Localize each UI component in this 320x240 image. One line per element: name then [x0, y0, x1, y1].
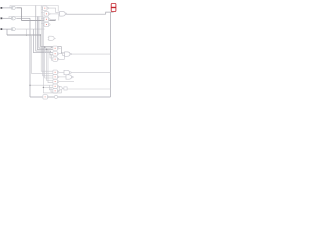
node dot (30,85.2)	[29, 85, 30, 86]
node dot (40.6,35)	[40, 34, 41, 35]
bottom box 1	[53, 70, 59, 74]
wire G3 output	[16, 28, 44, 30]
trio box 2	[53, 52, 59, 56]
output pin (red error value)	[111, 4, 116, 12]
input pin P2	[1, 17, 3, 19]
wire B out to E in2	[50, 13, 60, 15]
mini gate C	[44, 17, 50, 21]
node dot (46.6,49.4)	[46, 49, 47, 50]
nand gate H3	[66, 75, 72, 79]
wire right bus vertical x110.4	[109, 12, 111, 97]
wire long vertical x30	[29, 18, 31, 97]
node dot (43.3,87.4)	[43, 87, 44, 88]
xor gate G3	[11, 28, 15, 31]
wire E output long right	[67, 13, 106, 15]
gate F stubs	[48, 37, 56, 39]
feeder x44.7 from dot to box2 in2	[45, 47, 53, 78]
gate A input stubs	[41, 7, 42, 9]
wire row3 drop to y35	[6, 29, 8, 35]
wire circle to square	[62, 87, 64, 89]
gate B input stubs	[41, 13, 44, 15]
and gate E	[60, 12, 66, 17]
feeder x46.6 from dot to box3 in1	[47, 49, 53, 80]
wire H2 out to bus	[71, 72, 110, 74]
mini gate B	[44, 12, 50, 16]
wire C out joins y20.4	[50, 19, 56, 20]
E output bubble	[65, 13, 67, 15]
nand gate H1	[65, 52, 70, 56]
wire box4 in1 from x30	[30, 84, 53, 86]
gate C input stubs	[41, 18, 44, 20]
wire y92.9 to circle riser	[43, 90, 61, 93]
staircase rail 1 x40.6 to H1 top input	[41, 35, 65, 53]
wire G2 output to x30	[16, 17, 30, 19]
wire box3 out stub	[59, 81, 74, 83]
wire P2 to gate	[2, 17, 11, 19]
wire box1 out to H2	[59, 71, 64, 73]
square component S1	[64, 87, 67, 90]
wire square out long to bus	[67, 88, 110, 90]
staircase rail 3 x37.4	[37, 17, 53, 50]
feeder x51.4 to trio box3 in2	[51, 55, 53, 60]
H1 bubble	[70, 53, 72, 55]
H2 bubble	[70, 72, 72, 74]
gate D input stubs	[41, 23, 44, 25]
wire P3 to gate	[2, 28, 11, 30]
trio box 3	[53, 57, 59, 61]
wire jog up toward pin	[106, 12, 114, 15]
wire box4 in2 from x43.3	[43, 86, 53, 88]
node dot (44.7,47.2)	[44, 47, 45, 48]
bottom box 5	[53, 89, 59, 93]
mini box on bottom rail	[43, 95, 49, 99]
wire y35 rail	[7, 34, 41, 36]
wire feeder x42.7 down to bottom box1 low input	[43, 7, 53, 76]
H3 bubble	[72, 76, 74, 78]
bottom box 2	[53, 75, 59, 79]
wire box2 out to H3	[59, 76, 66, 78]
wire box5 out to circle	[59, 89, 60, 92]
staircase rail 4 x35.8	[36, 6, 53, 53]
wire H1 out long right	[72, 53, 111, 55]
input pin P3	[1, 28, 3, 30]
mini gate D	[44, 22, 50, 26]
wire y20.4 rail	[21, 19, 55, 21]
wire x26.5 link	[26, 29, 28, 35]
circle node C2	[54, 95, 57, 98]
bottom box 4	[53, 84, 59, 88]
staircase rail 2 x38.9	[39, 17, 53, 49]
feeder x49.5 to box5 in1	[50, 85, 53, 90]
wire feeder x41.2 down to bottom box1 top input	[41, 6, 53, 72]
mini gate A	[43, 6, 49, 10]
wire box4 out to circle	[58, 86, 61, 87]
wire bottom rail y97	[30, 96, 110, 98]
feeder x50.0 to trio box3 in1	[50, 55, 53, 58]
xor gate G2	[11, 17, 15, 20]
trio box 1	[53, 46, 59, 50]
wire trio1 out stub	[59, 47, 61, 49]
feeder x48 to box3 in2	[48, 49, 53, 82]
input pin P1	[1, 7, 3, 9]
staircase rail 5 x33.4	[33, 29, 53, 55]
feeder x31.5 from y35 to box1 in2	[32, 35, 53, 73]
floating and gate F	[49, 36, 54, 40]
wire trio2 out to H1 in2	[59, 54, 65, 56]
wire G1 output right and down x21.4	[16, 8, 21, 21]
wire A out to E in1	[49, 8, 60, 12]
wire riser x58.8	[58, 14, 60, 20]
wire row2 branch up rail y16.5	[9, 17, 43, 19]
wire trio3 out rising joins H1 in2	[59, 55, 64, 59]
node dot (26.5,35)	[26, 34, 27, 35]
bottom box 3	[53, 79, 59, 83]
nand gate H2	[64, 70, 70, 74]
wire row1 branch up and long top rail y5.5	[10, 6, 58, 12]
xor gate G1	[11, 6, 15, 9]
feeder x51 to box5 in2	[51, 87, 53, 92]
circle node C1	[59, 87, 62, 90]
wire P1 to gate	[2, 7, 11, 9]
wire long vertical x43.3	[42, 17, 44, 93]
